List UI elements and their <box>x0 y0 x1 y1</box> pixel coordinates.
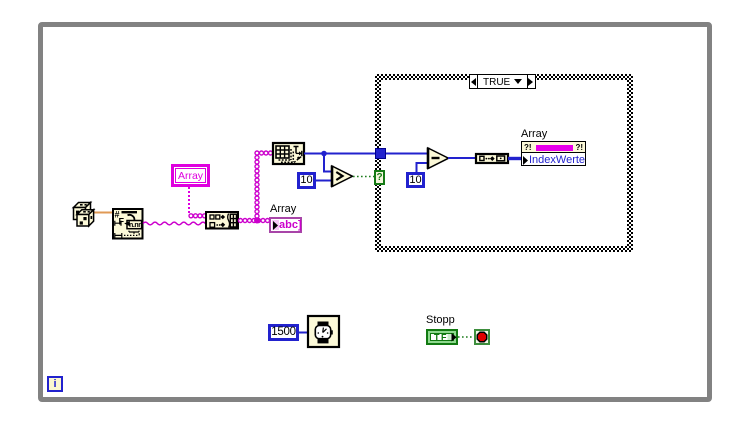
subtract node <box>428 148 449 170</box>
left decrement arrow <box>470 75 478 88</box>
wire blue 1500 to wait <box>299 332 309 334</box>
Array control (magenta) <box>171 164 210 187</box>
case structure (checkered border) <box>375 74 633 252</box>
case selector terminal ? <box>374 170 385 185</box>
wire magenta ring chain: build array out to abc indicator <box>239 219 270 223</box>
tunnel (blue) on case left border <box>375 148 386 159</box>
selector text <box>483 77 510 88</box>
label Array (for abc indicator) <box>270 204 296 215</box>
case selector label "TRUE" <box>469 74 536 89</box>
label Stopp <box>426 315 455 326</box>
junction magenta <box>254 218 260 224</box>
dice random icon <box>74 203 94 227</box>
10 constant (left of > comparator) <box>297 172 316 189</box>
Array string indicator [abc] <box>269 217 302 233</box>
wire blue junction down to comparator <box>324 154 332 172</box>
comparator > <box>332 166 353 188</box>
Stopp TF boolean terminal <box>426 329 458 345</box>
iteration terminal i <box>47 376 63 392</box>
IndexWerte array indicator <box>521 141 586 166</box>
wire blue thick array to IndexWerte <box>508 157 521 160</box>
stop button (conditional terminal) <box>474 329 490 345</box>
wire magenta rings into build array top input <box>189 214 207 218</box>
wire blue 10 to comparator <box>316 180 332 182</box>
array size node <box>273 143 304 164</box>
junction blue <box>321 151 327 157</box>
build array node <box>206 212 238 229</box>
right increment arrow <box>527 75 535 88</box>
wire magenta dotted from Array control down <box>188 187 190 214</box>
10 constant (inside case) <box>406 172 425 188</box>
wire blue subtract to build array 2 <box>448 157 476 159</box>
wire blue array size to tunnel <box>304 153 375 155</box>
subVI icon (#F n.nn) <box>113 209 143 239</box>
wire blue 10 up to subtract <box>417 163 429 172</box>
dropdown arrow <box>514 79 523 85</box>
build array node 2 (inside case) <box>476 154 508 163</box>
wire magenta ring chain vertical up to array size <box>255 151 259 218</box>
wire magenta wavy subVI to build array <box>143 222 205 225</box>
wire blue tunnel to subtract <box>386 153 428 155</box>
wire magenta ring chain into array size <box>260 151 273 155</box>
wait (ms) node with watch icon <box>308 316 339 347</box>
wire orange dice to subVI <box>92 212 113 214</box>
wire green dotted comparator to ? terminal <box>353 176 374 178</box>
label Array (for IndexWerte) <box>521 129 547 140</box>
wire green dotted TF to stop button <box>458 336 474 338</box>
1500 constant <box>268 324 299 341</box>
svg-text:n.nn: n.nn <box>129 222 142 229</box>
